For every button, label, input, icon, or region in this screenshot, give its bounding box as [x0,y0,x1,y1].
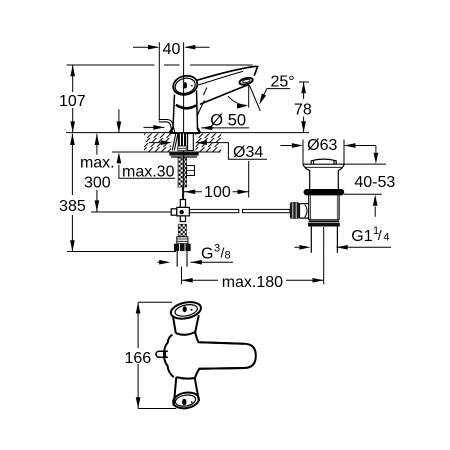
bell [303,163,344,165]
svg-text:100: 100 [204,184,231,201]
thread below deck [178,157,187,187]
svg-text:166: 166 [124,350,151,367]
svg-text:4: 4 [383,232,389,244]
spout [196,66,258,80]
shank through deck [169,134,198,188]
svg-text:78: 78 [294,101,312,118]
svg-text:G1: G1 [351,228,372,245]
G1 1/4 dimension arrows [295,246,392,248]
G 3/8 label [158,261,233,263]
deck bottom line [112,151,221,153]
base [169,128,200,133]
knurled knob [290,202,300,219]
knob dots [182,82,193,405]
dimension O50 leader [144,126,250,129]
deck top line [66,132,309,134]
svg-text:Ø 50: Ø 50 [210,112,246,130]
top reference line y=65 [67,64,253,66]
dimension max.30 box [119,109,175,178]
svg-text:40: 40 [163,41,181,58]
svg-text:3: 3 [214,243,220,255]
svg-text:max.30: max.30 [122,163,175,180]
svg-text:40-53: 40-53 [354,174,395,191]
dimension 78 [299,82,309,133]
max.180 dimension [182,253,324,285]
deck hatching [144,133,221,151]
dimension 100 [184,161,249,198]
svg-text:Ø63: Ø63 [307,137,337,154]
385 bottom reference line [67,251,176,253]
O63 dimension [281,140,376,165]
body and spout arm [164,335,174,378]
dimension 107 [72,65,74,133]
40-53 dimension [343,146,386,217]
svg-text:300: 300 [84,174,111,191]
waste assembly [290,159,345,253]
dimension 385 [71,134,73,252]
bottom view: faucet from above [156,300,256,411]
hose below shank [182,187,184,200]
svg-text:G: G [201,246,213,263]
centerline of faucet [183,42,185,199]
bottom knob [176,377,195,378]
body below seal [309,195,339,219]
dimension 40 [133,42,210,120]
lower thread and G3/8 nut [174,224,191,267]
body [173,95,175,129]
lever [156,351,168,357]
svg-text:25°: 25° [271,74,295,91]
25 degree annotation [228,85,290,111]
seal [304,189,345,195]
svg-text:385: 385 [59,198,86,215]
svg-text:max.: max. [80,155,115,172]
cross joint [171,200,189,222]
top knob [169,300,202,322]
side port [300,204,309,218]
backnut [169,152,198,156]
svg-text:8: 8 [225,250,231,262]
bottom view: dimension 166 [138,302,176,408]
plug cap [311,159,336,164]
svg-text:107: 107 [59,93,86,110]
svg-text:Ø34: Ø34 [233,144,263,161]
dimension O34 [149,143,267,160]
nut band [309,220,339,222]
dimension max.300 [96,134,98,212]
faucet body side view [169,66,257,133]
left bracket at base [159,120,175,134]
svg-text:max.180: max.180 [222,274,283,291]
knob outer [171,73,200,97]
tailpipe [311,227,337,253]
svg-text:/: / [378,227,382,243]
pop-up rod [91,209,290,212]
